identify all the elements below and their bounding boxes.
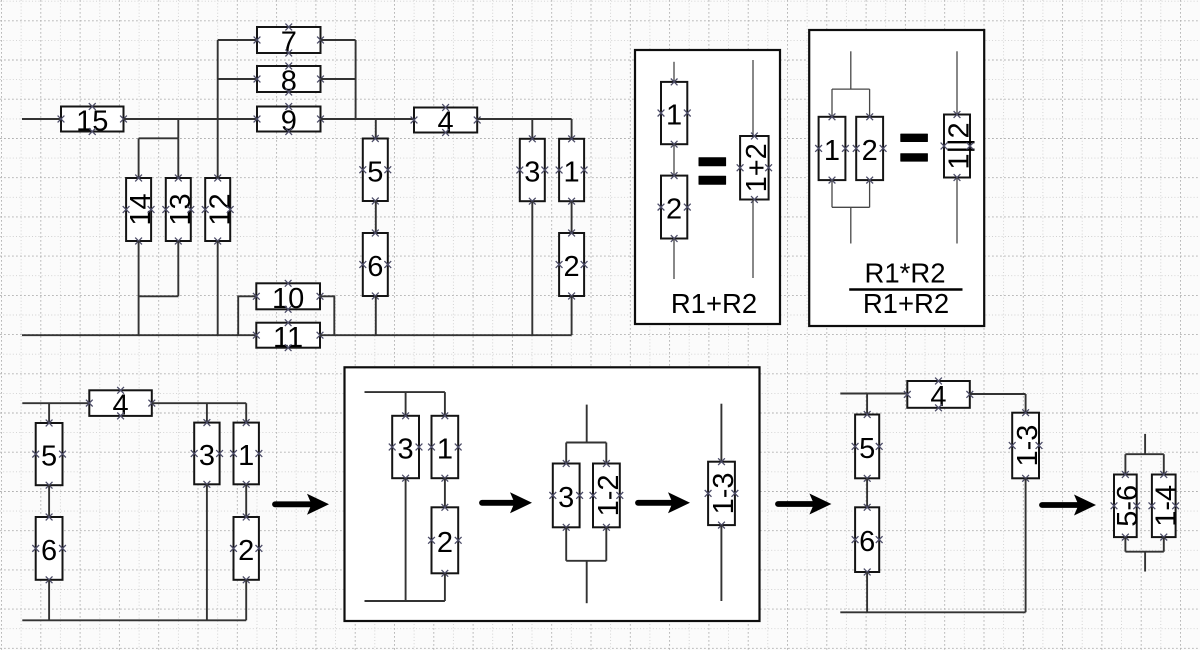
svg-text:3: 3: [398, 434, 414, 466]
svg-text:5: 5: [859, 433, 875, 465]
wire E bottom bar: [1125, 551, 1163, 553]
wire input left to R15: [22, 118, 61, 120]
resistor C1 R3: [389, 412, 423, 481]
resistor E R5-6: [1111, 471, 1144, 540]
svg-text:2: 2: [666, 194, 682, 226]
svg-text:5-6: 5-6: [1112, 485, 1144, 527]
svg-text:1: 1: [824, 135, 840, 167]
arrow step 4: [778, 494, 831, 515]
wire bottom of parallel pair: [850, 207, 852, 243]
wire D R4 to R1-3: [970, 393, 1026, 395]
resistor C3 R1-3: [705, 458, 740, 528]
wire R13 join R14: [139, 295, 179, 297]
wire parallel top left stem: [831, 89, 833, 117]
wire down to R1 top: [571, 119, 573, 139]
wire C1 bottom: [365, 600, 445, 602]
svg-text:13: 13: [165, 193, 197, 225]
series equivalence example box: [635, 50, 780, 324]
wire R4 to R1 column: [477, 118, 571, 120]
svg-text:3: 3: [524, 157, 540, 189]
resistor B R4: [86, 387, 155, 422]
wire R9 to R4: [321, 118, 415, 120]
svg-text:15: 15: [76, 106, 108, 138]
resistor C2 R3: [549, 460, 583, 531]
wire bottom bus left: [22, 334, 256, 336]
svg-text:6: 6: [41, 535, 57, 567]
wire R10 right connection: [320, 296, 334, 335]
wire D R5 to R6: [866, 478, 868, 507]
resistor D R1-3: [1009, 409, 1044, 481]
wire E top left stem: [1124, 454, 1126, 474]
svg-text:2: 2: [564, 251, 580, 283]
wire branch horizontal to R14: [139, 137, 179, 139]
wire R10 left connection: [238, 296, 256, 335]
resistor R6: [359, 230, 391, 300]
wire C2 bottom left stem: [565, 527, 567, 561]
wire to R8 left: [218, 78, 257, 80]
wire B R3 to bus: [206, 484, 208, 620]
wire B R5 to R6: [48, 485, 50, 517]
wire R7 right to bus: [321, 39, 356, 41]
svg-text:6: 6: [367, 251, 383, 283]
resistor R11: [253, 319, 324, 354]
wire down to R14 top: [138, 138, 140, 178]
svg-text:3: 3: [558, 482, 574, 514]
wire C1 R2 down to bottom: [444, 573, 446, 601]
wire E top lead: [1144, 434, 1146, 454]
wire B junction down to R5: [48, 403, 50, 423]
svg-text:2: 2: [862, 135, 878, 167]
resistor R13: [162, 175, 197, 245]
wire C1 top: [365, 391, 445, 393]
arrow step 5: [1042, 495, 1096, 516]
wire C1 down to R1: [444, 392, 446, 416]
wire R14 to bottom bus: [138, 241, 140, 335]
resistor B R1: [230, 419, 262, 488]
resistor parallel R1: [815, 113, 849, 183]
resistor B R2: [230, 514, 262, 584]
wire parallel bottom bar: [832, 206, 870, 208]
svg-text:9: 9: [281, 106, 297, 138]
svg-text:2: 2: [437, 527, 453, 559]
wire E bottom lead: [1144, 552, 1146, 572]
wire left bus R12 top up to R7 level: [217, 40, 219, 178]
wire E bottom right stem: [1163, 537, 1165, 552]
wire C3 bottom lead: [720, 525, 722, 601]
wire parallel bottom right stem: [869, 180, 871, 207]
resistor D R4: [904, 378, 973, 413]
resistor R2: [556, 230, 588, 300]
wire bottom bus right: [320, 334, 572, 336]
wire R3 to bottom bus: [531, 201, 533, 335]
svg-text:14: 14: [125, 193, 157, 225]
resistor R15: [58, 103, 127, 138]
wire R1 to R2: [571, 201, 573, 233]
wire junction down to R3: [531, 119, 533, 139]
wire series R1 to R2: [673, 144, 675, 175]
wire D bottom bus: [840, 611, 1025, 613]
wire B bottom bus: [22, 619, 246, 621]
wire junction down to R13-R14 branch: [177, 119, 179, 138]
wire C1 down to R3: [405, 392, 407, 416]
arrow step 1: [275, 494, 329, 515]
wire B R6 to bus: [48, 580, 50, 621]
wire C1 R1 to R2: [444, 478, 446, 507]
wire C2 bottom right stem: [605, 527, 607, 561]
resistor D R6: [852, 504, 883, 576]
wire E top right stem: [1163, 454, 1165, 474]
resistor R7: [254, 24, 324, 59]
wire parallel top right stem: [869, 89, 871, 117]
wire B R4 to R1 column: [152, 402, 246, 404]
svg-text:1: 1: [238, 440, 254, 472]
resistor B R3: [191, 419, 223, 488]
wire R6 to bottom bus: [375, 296, 377, 335]
wire D down to R1-3 top: [1025, 394, 1027, 413]
wire R12 to bottom bus: [217, 241, 219, 335]
svg-text:2: 2: [238, 535, 254, 567]
wire C2 top lead: [586, 405, 588, 443]
wire D R1-3 to bus: [1025, 478, 1027, 612]
svg-text:R1+R2: R1+R2: [671, 288, 757, 319]
wire C2 bottom lead: [586, 561, 588, 603]
wire down to R13 top: [177, 138, 179, 178]
resistor R4: [411, 104, 481, 139]
resistor B R6: [32, 514, 66, 584]
wire C2 top right stem: [605, 443, 607, 464]
svg-text:R1*R2: R1*R2: [864, 258, 945, 289]
wire C2 bottom bar: [566, 560, 606, 562]
wire top of series R1: [673, 62, 675, 82]
resistor E R1-4: [1149, 471, 1183, 540]
resistor R3: [516, 135, 548, 204]
svg-text:4: 4: [113, 390, 129, 422]
resistor series R1: [658, 79, 691, 148]
wire D junction down to R5: [866, 394, 868, 415]
wire C1 R3 down to bottom: [405, 478, 407, 601]
wire C2 top left stem: [565, 443, 567, 464]
equals sign parallel: [900, 134, 928, 162]
wire right bus down to main: [355, 40, 357, 119]
resistor C2 R1-2: [590, 460, 625, 531]
resistor B R5: [32, 420, 66, 489]
resistor R5: [359, 135, 391, 204]
wire R2 to bottom bus: [571, 296, 573, 335]
arrow step 2: [482, 492, 532, 513]
wire R5 to R6: [375, 201, 377, 233]
resistor series R2: [658, 172, 691, 242]
wire bottom of series R2: [673, 239, 675, 280]
simplification steps box: [345, 367, 760, 621]
wire top of parallel equivalent: [956, 51, 958, 114]
wire E top bar: [1125, 453, 1163, 455]
wire D top left: [840, 393, 907, 395]
svg-text:3: 3: [199, 440, 215, 472]
svg-text:R1+R2: R1+R2: [863, 288, 949, 319]
resistor C1 R1: [428, 412, 462, 481]
wire C2 top bar: [566, 442, 606, 444]
arrow step 3: [638, 492, 690, 513]
wire bottom of parallel equivalent: [956, 178, 958, 244]
resistor R1: [556, 135, 588, 204]
svg-text:5: 5: [367, 156, 383, 188]
wire R15 to R9: [124, 118, 258, 120]
svg-text:12: 12: [204, 193, 236, 225]
svg-text:11: 11: [273, 322, 303, 354]
svg-text:5: 5: [41, 441, 57, 473]
wire R13 bottom down: [177, 241, 179, 296]
resistor parallel R2: [853, 113, 887, 183]
resistor R10: [253, 280, 324, 315]
wire top of parallel pair: [850, 51, 852, 89]
wire to R7 left: [218, 39, 257, 41]
svg-text:6: 6: [859, 526, 875, 558]
wire B down to R1 top: [245, 403, 247, 422]
wire R8 right to bus: [321, 78, 356, 80]
resistor R8: [254, 63, 324, 98]
wire bottom of series equivalent: [752, 200, 754, 279]
equals sign series: [699, 157, 727, 184]
wire D R6 to bus: [866, 572, 868, 612]
resistor series equivalent 1+2: [737, 133, 773, 203]
svg-text:1: 1: [564, 157, 580, 189]
fraction bar: [849, 288, 962, 291]
wire E bottom left stem: [1124, 537, 1126, 552]
wire B R1 to R2: [245, 484, 247, 517]
svg-text:1-4: 1-4: [1150, 485, 1182, 527]
svg-text:4: 4: [438, 107, 454, 139]
svg-text:1: 1: [666, 100, 682, 132]
wire C3 top lead: [720, 404, 722, 462]
wire top of series equivalent: [752, 60, 754, 136]
wire junction down to R5: [375, 119, 377, 139]
svg-text:1: 1: [437, 434, 453, 466]
wire parallel top bar: [832, 88, 870, 90]
resistor R14: [123, 175, 158, 245]
parallel equivalence example box: [809, 30, 984, 326]
resistor R9: [254, 103, 324, 138]
resistor D R5: [852, 411, 883, 482]
wire parallel bottom left stem: [831, 180, 833, 207]
resistor C1 R2: [428, 504, 462, 577]
wire B R2 to bus: [245, 580, 247, 621]
resistor parallel equivalent 1||2: [941, 111, 976, 181]
wire B junction down to R3: [206, 403, 208, 422]
resistor R12: [202, 175, 237, 245]
wire B top left: [22, 402, 89, 404]
